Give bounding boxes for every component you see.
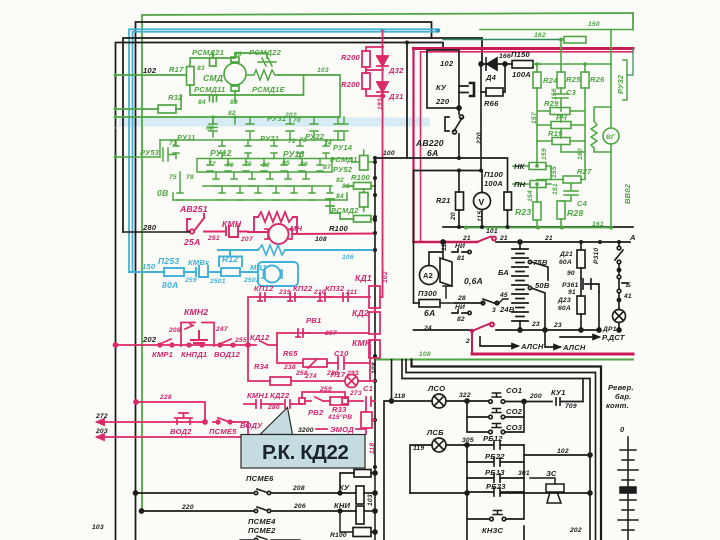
svg-text:21: 21 (462, 235, 471, 242)
svg-text:80: 80 (262, 162, 270, 169)
wire panel outer-left edge (384, 401, 392, 540)
svg-text:2: 2 (465, 338, 470, 345)
resistor НК (529, 163, 546, 170)
svg-text:R25: R25 (566, 75, 581, 84)
svg-text:118: 118 (394, 393, 405, 400)
contact КД extra (343, 293, 348, 301)
svg-text:118: 118 (369, 443, 376, 454)
svg-text:259: 259 (184, 277, 197, 284)
wire crimson bottom thick (472, 353, 633, 356)
svg-text:ВОД12: ВОД12 (214, 350, 241, 359)
svg-text:155: 155 (551, 166, 558, 178)
wire bus 330 (414, 329, 600, 331)
svg-text:207: 207 (240, 236, 253, 243)
svg-text:77: 77 (208, 161, 216, 168)
resistor parallel КУ (340, 473, 354, 493)
battery БА (519, 242, 521, 249)
wire crimson bottom row (414, 241, 478, 243)
svg-text:108: 108 (371, 362, 378, 374)
svg-text:С1: С1 (363, 384, 373, 393)
wire black frame 1 (136, 22, 432, 540)
contact row5 set (173, 172, 183, 200)
wire rail 82 (116, 75, 341, 117)
svg-text:С4: С4 (577, 199, 588, 208)
svg-text:А2: А2 (423, 271, 433, 280)
svg-text:РВ2: РВ2 (308, 408, 324, 417)
svg-text:ПСМЕ5: ПСМЕ5 (209, 427, 237, 436)
switch column ДР (560, 242, 628, 339)
contact РБ12 (467, 441, 524, 449)
svg-text:322: 322 (459, 392, 471, 399)
contact РСМД2 green (326, 199, 340, 213)
contact РСМД21 (210, 53, 217, 66)
svg-text:100А: 100А (484, 179, 503, 188)
svg-text:Б: Б (626, 282, 631, 289)
svg-text:210: 210 (313, 289, 326, 296)
svg-text:РСМД1Е: РСМД1Е (252, 85, 286, 94)
bell ЗС (546, 484, 564, 503)
svg-text:80А: 80А (162, 280, 178, 290)
svg-text:КУ: КУ (339, 483, 350, 492)
switch disconnect red 21 (477, 237, 496, 243)
contact РСМД11 (210, 95, 217, 101)
svg-text:208: 208 (292, 485, 305, 492)
svg-text:228: 228 (159, 394, 172, 401)
svg-text:С3: С3 (566, 88, 577, 97)
wire row 220 (142, 510, 255, 512)
svg-text:83: 83 (197, 65, 205, 72)
wire grid mid rail (160, 139, 344, 141)
svg-text:709: 709 (565, 403, 577, 410)
contact НИ 81 (452, 249, 468, 252)
wire panel frame outer (412, 360, 602, 540)
svg-text:П253: П253 (158, 256, 179, 266)
node bus227 dots (457, 225, 510, 229)
svg-text:193: 193 (377, 98, 384, 110)
contactor КУ box (427, 50, 474, 158)
resistor R100 bottom (340, 511, 353, 532)
contact ПСМЕ4 (257, 507, 267, 511)
wire 162 line (443, 39, 561, 41)
svg-text:76: 76 (226, 162, 234, 169)
svg-text:ПСМЕ4: ПСМЕ4 (248, 517, 276, 526)
button СО1 (467, 400, 488, 402)
svg-text:150: 150 (588, 21, 600, 28)
svg-text:100А: 100А (512, 70, 531, 79)
contact row1 d (310, 124, 318, 140)
svg-text:101: 101 (486, 228, 498, 235)
svg-text:КП12: КП12 (254, 284, 274, 293)
svg-text:РБ13: РБ13 (485, 468, 505, 477)
svg-text:R33: R33 (332, 405, 347, 414)
contact row1 b (246, 124, 254, 140)
contact КУ (459, 86, 468, 93)
svg-text:3: 3 (492, 307, 496, 314)
svg-text:Д32: Д32 (388, 66, 404, 75)
svg-text:87: 87 (323, 164, 331, 171)
svg-text:ПСМЕ6: ПСМЕ6 (246, 474, 274, 483)
arrow АЛСН b (480, 337, 518, 348)
capacitor С3 (554, 88, 568, 104)
contact РВ1 (296, 329, 310, 337)
svg-text:108: 108 (419, 351, 431, 358)
relay coil РВ (361, 412, 372, 428)
svg-text:R200: R200 (341, 53, 361, 62)
wire 75В tap (528, 260, 531, 263)
svg-text:161: 161 (592, 221, 604, 228)
svg-text:2501: 2501 (209, 278, 226, 285)
svg-text:БА: БА (498, 268, 509, 277)
svg-text:103: 103 (317, 67, 329, 74)
coil КУ (340, 492, 356, 494)
contact РУ53 (160, 140, 176, 161)
wire panel frame mid (406, 360, 596, 540)
svg-text:РУ32: РУ32 (616, 74, 625, 94)
svg-text:РБ22: РБ22 (485, 452, 505, 461)
wire smd box outline (190, 58, 304, 95)
svg-text:R29: R29 (544, 99, 559, 108)
svg-text:150: 150 (142, 262, 156, 271)
wire КУ1 branch (524, 379, 583, 406)
contact row1 e (334, 117, 342, 140)
contactor КП row wire (248, 286, 383, 345)
svg-text:КМН1: КМН1 (247, 391, 269, 400)
svg-text:Р310: Р310 (593, 248, 600, 264)
svg-text:23: 23 (531, 321, 540, 328)
svg-text:72: 72 (288, 138, 296, 145)
svg-text:R17: R17 (169, 65, 184, 74)
node bus dots (457, 156, 483, 173)
svg-text:Д23: Д23 (557, 297, 571, 304)
relay КМН1 КД22 row (244, 392, 375, 434)
svg-text:75: 75 (169, 174, 177, 181)
arrow РДСТ (560, 335, 599, 340)
svg-text:220: 220 (181, 504, 194, 511)
svg-text:РСМД22: РСМД22 (249, 48, 282, 57)
svg-text:РБ23: РБ23 (486, 482, 506, 491)
svg-text:R28: R28 (567, 208, 583, 218)
wire av251 feed (123, 231, 190, 233)
contact ПСМЕ2 (240, 536, 300, 540)
svg-text:166: 166 (499, 53, 511, 60)
node cyan end 438,30 (436, 28, 440, 32)
resistor R27 (563, 176, 581, 183)
wire bus П100 (414, 171, 483, 304)
contact ПСМЕ6 (257, 489, 267, 493)
svg-text:РУ22: РУ22 (305, 132, 325, 141)
svg-text:R66: R66 (484, 99, 499, 108)
wire green 188 line (377, 359, 633, 361)
svg-text:208: 208 (168, 327, 181, 334)
svg-text:РУ14: РУ14 (333, 143, 353, 152)
svg-text:бар.: бар. (615, 392, 631, 401)
svg-text:КУ1: КУ1 (551, 388, 566, 397)
fuse Д21 (577, 242, 601, 332)
relay coil КД2 (369, 312, 380, 334)
button КНЗС (467, 493, 524, 519)
generator ВГ (603, 128, 619, 144)
wire panel frame inner (402, 360, 590, 540)
svg-text:R27: R27 (577, 167, 592, 176)
svg-text:280: 280 (142, 223, 157, 232)
contact РБ23 (467, 478, 524, 496)
reverser drum comb (618, 437, 638, 540)
svg-text:РУ52: РУ52 (333, 165, 353, 174)
svg-text:R100: R100 (329, 224, 349, 233)
switch battery red (470, 323, 494, 355)
fuse Д23 (577, 296, 585, 314)
contact row1 a (209, 121, 217, 137)
svg-text:R23: R23 (515, 207, 531, 217)
svg-text:91: 91 (568, 289, 576, 296)
wire bus 227 (443, 226, 633, 228)
wire crimson left vertical (412, 49, 414, 243)
svg-text:МН: МН (290, 224, 303, 233)
motor МН with resistor (248, 212, 375, 244)
svg-text:ЛСБ: ЛСБ (426, 428, 444, 437)
svg-text:КНПД1: КНПД1 (181, 350, 207, 359)
svg-text:45: 45 (499, 292, 508, 299)
svg-text:А: А (629, 233, 636, 242)
svg-text:НИ: НИ (455, 243, 465, 250)
svg-text:206: 206 (293, 503, 306, 510)
svg-text:257: 257 (324, 330, 337, 337)
svg-text:103: 103 (92, 524, 104, 531)
svg-text:3200: 3200 (298, 427, 314, 434)
svg-text:162: 162 (534, 32, 546, 39)
svg-text:200: 200 (529, 393, 542, 400)
svg-text:Д31: Д31 (388, 92, 404, 101)
svg-text:102: 102 (440, 59, 454, 68)
svg-text:ВОД2: ВОД2 (170, 427, 192, 436)
node rail2 407 (405, 41, 409, 45)
svg-text:R21: R21 (436, 196, 451, 205)
svg-text:R12: R12 (222, 254, 238, 264)
svg-text:R34: R34 (254, 362, 269, 371)
svg-text:КНЗС: КНЗС (482, 526, 503, 535)
svg-text:Ревер.: Ревер. (608, 383, 634, 392)
svg-text:119: 119 (413, 445, 424, 452)
wire 50В tap (528, 286, 531, 289)
callout РК КД22 (241, 408, 365, 469)
wire green frame top (142, 13, 633, 511)
resistor ВГ branch zigzag (591, 121, 597, 148)
svg-text:280: 280 (267, 404, 280, 411)
svg-text:102: 102 (382, 271, 389, 283)
svg-text:АЛСН: АЛСН (562, 343, 586, 352)
wire center vertical 110 (374, 158, 376, 467)
wire green net top (480, 30, 633, 73)
svg-text:РУ21: РУ21 (260, 134, 279, 143)
svg-text:ПН: ПН (514, 180, 526, 189)
svg-text:КУ: КУ (436, 83, 447, 92)
svg-text:21: 21 (499, 235, 508, 242)
svg-text:41: 41 (623, 293, 632, 300)
svg-text:68: 68 (206, 125, 214, 132)
svg-text:301: 301 (518, 470, 530, 477)
svg-text:305: 305 (462, 437, 474, 444)
svg-text:КП32: КП32 (325, 284, 345, 293)
svg-text:НК: НК (514, 162, 526, 171)
contact КМР1 (158, 343, 162, 347)
svg-text:Д4: Д4 (485, 73, 497, 82)
svg-text:60А: 60А (558, 305, 571, 312)
contactor КМН contact (210, 226, 248, 237)
cyan МВ feeder П253 (129, 245, 375, 286)
svg-text:102: 102 (143, 66, 157, 75)
wire smd feed 102 (116, 74, 187, 76)
motor СМД (231, 57, 239, 62)
svg-text:КД2: КД2 (352, 308, 369, 318)
SECTION-C motors (326, 183, 375, 223)
contact НИ 82 (452, 310, 468, 313)
resistor R26 (581, 72, 589, 88)
svg-text:6А: 6А (427, 148, 438, 158)
svg-text:РСМД21: РСМД21 (192, 48, 224, 57)
lamp ЛСБ (410, 445, 432, 493)
resistor МВ zigzag cyan (258, 245, 285, 255)
svg-text:РСМД11: РСМД11 (194, 85, 225, 94)
resistor R100 green lower (360, 193, 369, 208)
svg-text:202: 202 (142, 335, 157, 344)
relay coil КД1 (369, 286, 380, 308)
wire green frame right drop (632, 13, 634, 30)
svg-text:КД22: КД22 (270, 391, 290, 400)
switch 24В (483, 299, 499, 303)
svg-text:R32: R32 (168, 93, 183, 102)
svg-text:П300: П300 (418, 289, 438, 298)
node dots center vertical (373, 156, 377, 469)
svg-text:23: 23 (553, 322, 562, 329)
button КНПД1 (191, 331, 207, 343)
svg-text:КМВк: КМВк (188, 258, 210, 267)
resistor РСМД1Е zigzag (246, 70, 278, 80)
contact РБ13 (467, 462, 524, 482)
svg-text:115: 115 (477, 211, 484, 222)
resistor ПН (530, 181, 546, 188)
svg-text:0,6А: 0,6А (464, 276, 483, 286)
svg-text:ЗС: ЗС (546, 469, 557, 478)
svg-text:П150: П150 (511, 50, 531, 59)
svg-text:R65: R65 (283, 349, 298, 358)
wire green bus 227 overlay (466, 227, 611, 229)
svg-text:П100: П100 (484, 170, 504, 179)
svg-text:0: 0 (620, 425, 625, 434)
wire crimson inner vertical (420, 52, 422, 242)
wire grid row1 drops (213, 117, 314, 124)
capacitor Р36 (583, 279, 599, 292)
svg-text:РУ13: РУ13 (283, 149, 305, 159)
svg-text:R200: R200 (341, 80, 361, 89)
resistor РЧ (551, 122, 571, 129)
svg-text:R100: R100 (351, 173, 371, 182)
wire vertical 407 to bus100 (406, 43, 408, 159)
resistor РСМД2 box (354, 216, 372, 223)
wire r-column links (537, 88, 585, 166)
contact row2 set (173, 140, 179, 159)
svg-text:90: 90 (567, 270, 575, 277)
button СО3 (467, 417, 488, 432)
relay coil КМН (369, 340, 380, 358)
contact КП22 (288, 293, 302, 301)
node bus242 dots (579, 240, 621, 244)
svg-text:151: 151 (552, 183, 559, 195)
svg-text:0В: 0В (157, 188, 168, 198)
coil РУ32 bracket (623, 60, 627, 100)
resistor R17 (187, 67, 195, 86)
svg-text:СО2: СО2 (506, 407, 523, 416)
wire crimson top thick (414, 47, 634, 50)
svg-text:211: 211 (345, 289, 357, 296)
resistor R21 (456, 192, 464, 210)
contactor КМН2 box (181, 323, 214, 347)
svg-text:РУ11: РУ11 (177, 133, 196, 142)
lamp ДР1 (613, 310, 626, 323)
svg-text:ВОДУ: ВОДУ (240, 421, 263, 430)
svg-text:71: 71 (169, 140, 177, 147)
contact row1 c (286, 124, 294, 140)
svg-text:239: 239 (278, 289, 291, 296)
diode network R200 Д32 Д31 (362, 31, 388, 298)
svg-text:РСМД1: РСМД1 (330, 155, 358, 164)
svg-text:РУ53: РУ53 (140, 148, 160, 157)
motor МВ cyan (258, 262, 298, 286)
svg-text:273: 273 (349, 390, 362, 397)
svg-text:РУ31: РУ31 (267, 114, 286, 123)
svg-text:АЛСН: АЛСН (520, 342, 544, 351)
svg-text:24: 24 (423, 325, 432, 332)
wire row 493 (410, 492, 590, 494)
svg-text:R100: R100 (330, 532, 347, 539)
svg-text:R24: R24 (543, 76, 558, 85)
svg-text:6А: 6А (424, 308, 435, 318)
svg-text:28: 28 (457, 295, 466, 302)
node 115 75 (114, 73, 118, 77)
resistor R100 green (360, 156, 369, 171)
svg-text:81: 81 (457, 255, 465, 262)
svg-text:220: 220 (476, 132, 483, 145)
svg-text:С10: С10 (334, 349, 349, 358)
svg-text:84: 84 (336, 193, 344, 200)
svg-text:конт.: конт. (606, 401, 629, 410)
relay R65 С10 row (248, 333, 370, 381)
lamp Л17 row R34 (262, 375, 375, 388)
svg-text:247: 247 (215, 326, 228, 333)
fuse П300 (414, 302, 420, 304)
svg-text:РБ12: РБ12 (483, 434, 503, 443)
resistor R66 (481, 64, 486, 92)
contact РСМД22 (258, 58, 276, 66)
fuse П100 body (504, 192, 512, 210)
wire bus 242 black (496, 241, 630, 243)
svg-text:75: 75 (244, 161, 252, 168)
resistor R25 (557, 72, 565, 88)
svg-text:РВ1: РВ1 (306, 316, 321, 325)
svg-text:103: 103 (367, 494, 374, 506)
highlight band (119, 118, 430, 127)
svg-text:ВГ: ВГ (606, 134, 616, 141)
contact row4 set (213, 172, 219, 186)
svg-text:75В: 75В (533, 258, 548, 267)
svg-text:РЧ: РЧ (556, 113, 567, 122)
svg-text:203: 203 (95, 428, 108, 435)
svg-text:112: 112 (441, 240, 448, 251)
wire bus 100 (375, 158, 508, 192)
wire 102 (524, 445, 590, 455)
relay РВ2 frame (302, 392, 345, 398)
resistor R19 (552, 138, 570, 145)
svg-text:74: 74 (324, 140, 332, 147)
